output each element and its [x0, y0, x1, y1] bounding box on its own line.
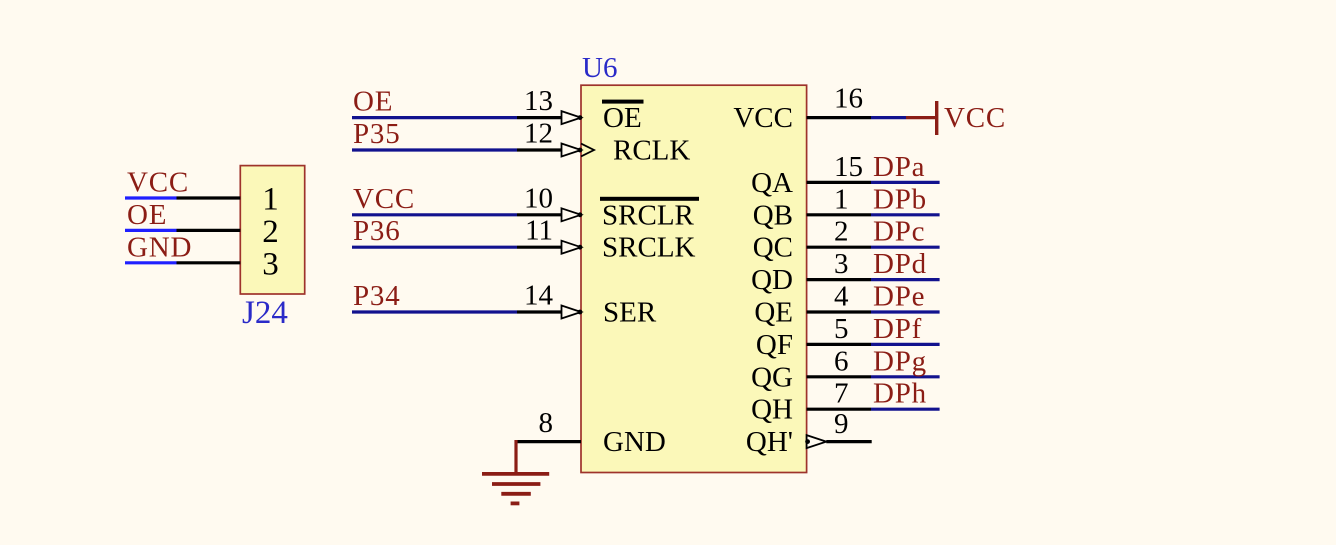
ground riser (maroon) — [514, 440, 517, 474]
svg-text:8: 8 — [539, 407, 554, 439]
svg-text:SRCLK: SRCLK — [602, 232, 696, 264]
U6 pin name SRCLR overbar — [600, 197, 699, 201]
wire net DPh (navy) — [871, 408, 940, 411]
svg-text:7: 7 — [834, 378, 849, 410]
pin 14 stub (black) — [517, 310, 562, 313]
pin 13 stub (black) — [517, 116, 562, 119]
svg-text:DPg: DPg — [873, 345, 927, 377]
wire net OE to J24 pin 2 (blue segment) — [125, 229, 177, 232]
svg-text:P35: P35 — [353, 118, 401, 150]
svg-text:2: 2 — [262, 214, 279, 250]
ground bar 1 — [482, 472, 549, 476]
pin 9 junction dot — [805, 439, 810, 444]
wire net OE (navy) — [352, 116, 517, 119]
svg-text:QH: QH — [751, 394, 793, 426]
svg-text:RCLK: RCLK — [613, 135, 690, 167]
ground bar 2 — [492, 482, 540, 486]
pin 10 input arrow — [562, 208, 582, 221]
svg-text:1: 1 — [262, 182, 279, 218]
svg-text:13: 13 — [524, 85, 553, 117]
pin 2 stub (black) — [807, 246, 871, 249]
svg-text:OE: OE — [353, 86, 393, 118]
pin 10 junction dot — [578, 212, 583, 217]
svg-text:U6: U6 — [582, 52, 617, 84]
VCC power symbol lead (maroon) — [906, 116, 935, 119]
svg-text:VCC: VCC — [944, 102, 1006, 134]
wire net DPb (navy) — [871, 213, 940, 216]
pin 12 junction dot — [578, 148, 583, 153]
pin 5 stub (black) — [807, 343, 871, 346]
svg-text:QE: QE — [754, 297, 793, 329]
svg-text:14: 14 — [524, 280, 554, 312]
svg-text:5: 5 — [834, 313, 849, 345]
pin 12 stub (black) — [517, 148, 562, 151]
ground bar 4 — [511, 501, 520, 505]
svg-text:P36: P36 — [353, 215, 401, 247]
svg-text:9: 9 — [834, 408, 849, 440]
svg-text:DPe: DPe — [873, 281, 925, 313]
pin 10 stub (black) — [517, 213, 562, 216]
wire net P36 (navy) — [352, 246, 517, 249]
pin 14 input arrow — [562, 306, 582, 319]
svg-text:3: 3 — [834, 248, 849, 280]
wire net VCC (navy) — [352, 213, 517, 216]
svg-text:QF: QF — [756, 329, 793, 361]
wire U6 pin 8 to ground (black) — [515, 440, 582, 443]
pin 7 stub (black) — [807, 408, 871, 411]
svg-text:3: 3 — [262, 246, 279, 282]
wire J24 pin 2 stub (black) — [177, 229, 241, 232]
pin 3 stub (black) — [807, 278, 871, 281]
wire net DPf (navy) — [871, 343, 940, 346]
svg-text:10: 10 — [524, 182, 553, 214]
wire net VCC to J24 pin 1 (blue segment) — [125, 196, 177, 199]
svg-text:VCC: VCC — [733, 102, 793, 134]
svg-text:11: 11 — [525, 215, 553, 247]
svg-text:J24: J24 — [242, 295, 288, 331]
op IC U6 body — [581, 85, 807, 472]
svg-text:QH': QH' — [746, 426, 793, 458]
svg-text:OE: OE — [127, 199, 167, 231]
wire net DPa (navy) — [871, 181, 940, 184]
svg-text:VCC: VCC — [127, 167, 189, 199]
svg-text:VCC: VCC — [353, 183, 415, 215]
svg-text:DPc: DPc — [873, 216, 925, 248]
svg-text:OE: OE — [603, 102, 642, 134]
VCC power symbol bar — [935, 101, 938, 135]
svg-text:QA: QA — [751, 167, 793, 199]
pin 1 stub (black) — [807, 213, 871, 216]
svg-text:P34: P34 — [353, 280, 401, 312]
pin 14 junction dot — [578, 310, 583, 315]
U6 pin name OE overbar — [602, 100, 644, 104]
svg-text:6: 6 — [834, 345, 849, 377]
svg-text:12: 12 — [524, 118, 553, 150]
svg-text:QB: QB — [753, 199, 793, 231]
svg-text:QC: QC — [753, 232, 793, 264]
pin 15 stub (black) — [807, 181, 871, 184]
svg-text:DPh: DPh — [873, 378, 927, 410]
pin 11 input arrow — [562, 241, 582, 254]
pin 9 stub (black) — [826, 440, 871, 443]
svg-text:4: 4 — [834, 281, 849, 313]
wire net P34 (navy) — [352, 310, 517, 313]
pin 16 stub (black) — [807, 116, 871, 119]
pin 4 stub (black) — [807, 310, 871, 313]
wire net DPd (navy) — [871, 278, 940, 281]
ground bar 3 — [501, 492, 531, 496]
svg-text:DPf: DPf — [873, 313, 922, 345]
wire net DPe (navy) — [871, 310, 940, 313]
wire net GND to J24 pin 3 (blue segment) — [125, 261, 177, 264]
svg-text:QG: QG — [751, 361, 793, 393]
wire net DPc (navy) — [871, 246, 940, 249]
pin 9 output arrow — [807, 435, 827, 448]
wire J24 pin 3 stub (black) — [177, 261, 241, 264]
svg-text:GND: GND — [603, 426, 666, 458]
pin 11 junction dot — [578, 245, 583, 250]
wire net DPg (navy) — [871, 375, 940, 378]
svg-text:DPd: DPd — [873, 248, 927, 280]
pin 11 stub (black) — [517, 246, 562, 249]
svg-text:16: 16 — [834, 82, 863, 114]
svg-text:DPa: DPa — [873, 151, 925, 183]
wire net VCC16 (navy) — [871, 116, 906, 119]
svg-text:2: 2 — [834, 216, 849, 248]
svg-text:1: 1 — [834, 183, 849, 215]
svg-text:QD: QD — [751, 264, 793, 296]
wire J24 pin 1 stub (black) — [177, 196, 241, 199]
svg-text:GND: GND — [127, 231, 192, 263]
connector J24 body — [240, 166, 304, 294]
pin 13 junction dot — [578, 115, 583, 120]
wire net P35 (navy) — [352, 148, 517, 151]
pin 6 stub (black) — [807, 375, 871, 378]
pin 13 input arrow — [562, 111, 582, 124]
svg-text:15: 15 — [834, 151, 863, 183]
pin 12 input arrow — [562, 144, 582, 157]
pin 12 clock chevron — [581, 144, 594, 157]
svg-text:SRCLR: SRCLR — [602, 199, 695, 231]
svg-text:SER: SER — [603, 297, 657, 329]
svg-text:DPb: DPb — [873, 183, 927, 215]
